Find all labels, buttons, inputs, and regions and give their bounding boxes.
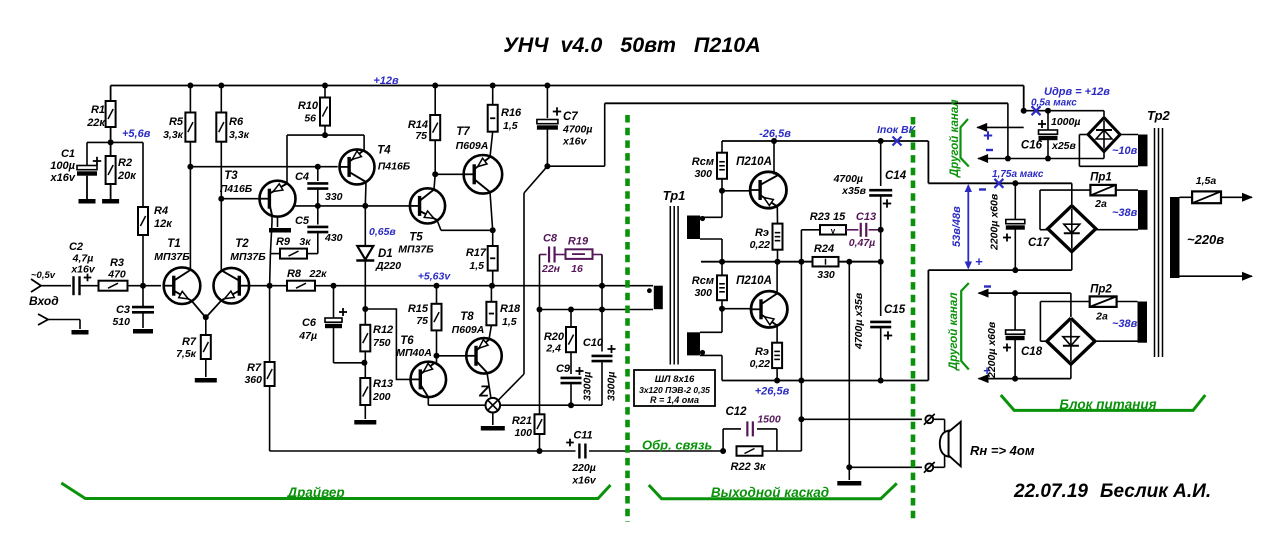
svg-text:47µ: 47µ bbox=[298, 330, 317, 342]
svg-text:750: 750 bbox=[373, 337, 391, 349]
svg-text:2а: 2а bbox=[1095, 311, 1108, 323]
svg-text:П609А: П609А bbox=[452, 324, 485, 336]
svg-text:R1: R1 bbox=[91, 104, 105, 116]
svg-text:300: 300 bbox=[694, 287, 712, 299]
svg-text:Пр1: Пр1 bbox=[1090, 172, 1112, 184]
svg-text:П210А: П210А bbox=[736, 275, 772, 287]
svg-text:300: 300 bbox=[694, 168, 712, 180]
svg-text:~38в: ~38в bbox=[1112, 207, 1138, 219]
svg-text:R3: R3 bbox=[110, 257, 124, 269]
svg-text:7,5к: 7,5к bbox=[176, 348, 197, 360]
svg-text:П609А: П609А bbox=[456, 140, 489, 152]
svg-text:R10: R10 bbox=[298, 100, 319, 112]
svg-text:УНЧ v4.0 50вт П210А: УНЧ v4.0 50вт П210А bbox=[503, 33, 761, 57]
svg-text:T1: T1 bbox=[167, 238, 180, 250]
svg-text:~220в: ~220в bbox=[1187, 232, 1224, 247]
svg-text:0,22: 0,22 bbox=[750, 358, 771, 370]
svg-text:16: 16 bbox=[571, 263, 583, 275]
svg-text:C7: C7 bbox=[563, 111, 578, 123]
svg-text:x16v: x16v bbox=[70, 264, 96, 276]
svg-text:Пр2: Пр2 bbox=[1090, 284, 1112, 296]
svg-text:x16v: x16v bbox=[571, 475, 597, 487]
svg-text:Обр. связь: Обр. связь bbox=[642, 438, 712, 453]
svg-text:2а: 2а bbox=[1094, 198, 1107, 210]
svg-text:470: 470 bbox=[107, 269, 126, 281]
svg-text:Тр2: Тр2 bbox=[1147, 108, 1171, 123]
svg-text:R18: R18 bbox=[500, 303, 521, 315]
svg-text:R7: R7 bbox=[182, 336, 197, 348]
svg-text:Iпок ВК: Iпок ВК bbox=[877, 124, 917, 136]
svg-text:П416Б: П416Б bbox=[378, 161, 411, 173]
svg-text:x16v: x16v bbox=[50, 172, 76, 184]
svg-text:R6: R6 bbox=[229, 116, 244, 128]
svg-text:C15: C15 bbox=[884, 304, 906, 316]
svg-text:Вход: Вход bbox=[29, 294, 59, 308]
svg-text:Тр1: Тр1 bbox=[663, 188, 686, 203]
svg-text:1,5: 1,5 bbox=[469, 260, 484, 272]
svg-text:2200µ х60в: 2200µ х60в bbox=[986, 321, 998, 379]
svg-text:v: v bbox=[831, 226, 836, 235]
svg-text:Uдрв = +12в: Uдрв = +12в bbox=[1044, 86, 1110, 98]
svg-text:3к: 3к bbox=[299, 236, 311, 248]
svg-text:Rсм: Rсм bbox=[692, 156, 714, 168]
svg-text:4700µ: 4700µ bbox=[562, 124, 592, 136]
svg-text:22н: 22н bbox=[541, 263, 561, 275]
svg-text:200: 200 bbox=[372, 391, 391, 403]
svg-text:R9: R9 bbox=[276, 236, 291, 248]
svg-text:+26,5в: +26,5в bbox=[755, 386, 790, 398]
svg-text:C3: C3 bbox=[116, 304, 130, 316]
svg-text:430: 430 bbox=[324, 232, 343, 244]
svg-text:R12: R12 bbox=[373, 324, 393, 336]
svg-text:МП40А: МП40А bbox=[396, 347, 432, 359]
svg-text:C18: C18 bbox=[1021, 346, 1043, 358]
svg-text:T4: T4 bbox=[377, 145, 391, 157]
svg-text:x25в: x25в bbox=[1051, 140, 1077, 152]
svg-text:C1: C1 bbox=[61, 148, 75, 160]
svg-text:C10: C10 bbox=[583, 337, 604, 349]
svg-text:+5,6в: +5,6в bbox=[122, 128, 151, 140]
svg-text:20к: 20к bbox=[117, 170, 137, 182]
svg-text:R16: R16 bbox=[501, 107, 522, 119]
svg-text:D1: D1 bbox=[378, 248, 393, 260]
svg-text:-26,5в: -26,5в bbox=[759, 128, 791, 140]
svg-text:C11: C11 bbox=[573, 430, 592, 442]
svg-text:+5,63v: +5,63v bbox=[418, 271, 452, 283]
svg-text:МП37Б: МП37Б bbox=[230, 251, 266, 263]
svg-text:1500: 1500 bbox=[757, 414, 781, 426]
svg-text:3х120 ПЭВ-2 0,35: 3х120 ПЭВ-2 0,35 bbox=[639, 385, 710, 395]
svg-text:T5: T5 bbox=[409, 232, 423, 244]
svg-text:C5: C5 bbox=[295, 215, 310, 227]
svg-text:3300µ: 3300µ bbox=[606, 372, 618, 401]
svg-text:x16v: x16v bbox=[562, 136, 588, 148]
svg-text:~10в: ~10в bbox=[1112, 145, 1138, 157]
svg-text:С8: С8 bbox=[543, 233, 558, 245]
svg-text:T7: T7 bbox=[456, 126, 470, 138]
svg-text:МП37Б: МП37Б bbox=[398, 244, 434, 256]
svg-text:R5: R5 bbox=[169, 116, 184, 128]
svg-text:R22 3к: R22 3к bbox=[731, 461, 767, 473]
svg-text:ШЛ 8х16: ШЛ 8х16 bbox=[655, 374, 695, 385]
svg-text:x35в: x35в bbox=[841, 185, 867, 197]
svg-text:510: 510 bbox=[112, 316, 130, 328]
svg-text:МП37Б: МП37Б bbox=[154, 251, 190, 263]
svg-text:R15: R15 bbox=[408, 303, 429, 315]
svg-text:Rэ: Rэ bbox=[755, 346, 769, 358]
svg-text:Rн => 4ом: Rн => 4ом bbox=[970, 443, 1035, 458]
svg-text:Другой канал: Другой канал bbox=[949, 99, 961, 178]
svg-text:22.07.19: 22.07.19 bbox=[1013, 481, 1088, 502]
svg-text:75: 75 bbox=[415, 130, 427, 142]
svg-text:T2: T2 bbox=[235, 238, 249, 250]
svg-text:Беслик А.И.: Беслик А.И. bbox=[1100, 481, 1211, 502]
svg-text:П416Б: П416Б bbox=[220, 183, 253, 195]
svg-text:R24: R24 bbox=[814, 243, 834, 255]
svg-text:R7: R7 bbox=[247, 362, 262, 374]
svg-text:C16: C16 bbox=[1021, 140, 1043, 152]
svg-text:R23 15: R23 15 bbox=[810, 211, 846, 223]
svg-text:R4: R4 bbox=[154, 205, 168, 217]
svg-text:0,5а макс: 0,5а макс bbox=[1031, 98, 1077, 109]
svg-text:T8: T8 bbox=[460, 311, 474, 323]
svg-text:T3: T3 bbox=[224, 170, 238, 182]
svg-text:0,47µ: 0,47µ bbox=[849, 237, 876, 249]
svg-text:С13: С13 bbox=[856, 211, 876, 223]
svg-text:100: 100 bbox=[514, 427, 532, 439]
svg-text:R = 1,4 ома: R = 1,4 ома bbox=[650, 395, 699, 405]
svg-text:C17: C17 bbox=[1028, 237, 1050, 249]
svg-text:22к: 22к bbox=[86, 117, 106, 129]
svg-text:~0,5v: ~0,5v bbox=[31, 270, 56, 281]
svg-text:Z: Z bbox=[478, 384, 490, 401]
svg-text:~38в: ~38в bbox=[1112, 318, 1138, 330]
svg-text:330: 330 bbox=[325, 191, 343, 203]
svg-text:1,5: 1,5 bbox=[502, 316, 517, 328]
svg-text:1,5: 1,5 bbox=[503, 120, 518, 132]
svg-text:Другой канал: Другой канал bbox=[948, 292, 960, 371]
svg-text:C14: C14 bbox=[885, 170, 907, 182]
svg-text:360: 360 bbox=[244, 374, 262, 386]
svg-text:Д220: Д220 bbox=[375, 260, 401, 272]
svg-text:C6: C6 bbox=[302, 317, 317, 329]
svg-text:0,22: 0,22 bbox=[750, 239, 771, 251]
svg-text:R8: R8 bbox=[287, 268, 302, 280]
svg-text:C2: C2 bbox=[69, 241, 83, 253]
svg-text:1000µ: 1000µ bbox=[1051, 116, 1080, 128]
svg-text:0,65в: 0,65в bbox=[369, 226, 396, 238]
svg-text:T6: T6 bbox=[400, 335, 414, 347]
svg-text:2,4: 2,4 bbox=[545, 343, 561, 355]
svg-text:330: 330 bbox=[817, 269, 835, 281]
svg-text:+12в: +12в bbox=[373, 75, 399, 87]
svg-text:П210А: П210А bbox=[736, 156, 772, 168]
svg-text:C9: C9 bbox=[556, 363, 571, 375]
svg-text:56: 56 bbox=[304, 113, 316, 125]
svg-text:C12: C12 bbox=[725, 406, 747, 418]
svg-text:Rсм: Rсм bbox=[692, 275, 714, 287]
svg-text:+: + bbox=[975, 254, 983, 269]
svg-text:12к: 12к bbox=[154, 218, 173, 230]
svg-text:22к: 22к bbox=[308, 268, 327, 280]
svg-text:R21: R21 bbox=[512, 415, 532, 427]
svg-text:3,3к: 3,3к bbox=[163, 129, 184, 141]
svg-text:1,5а: 1,5а bbox=[1196, 175, 1217, 187]
svg-text:Rэ: Rэ bbox=[755, 227, 769, 239]
svg-text:2200µ х60в: 2200µ х60в bbox=[989, 193, 1001, 251]
svg-text:4700µ: 4700µ bbox=[833, 173, 863, 185]
svg-text:R20: R20 bbox=[544, 331, 565, 343]
svg-text:53в/48в: 53в/48в bbox=[951, 206, 963, 247]
svg-text:R19: R19 bbox=[568, 236, 589, 248]
svg-text:R2: R2 bbox=[118, 157, 132, 169]
svg-text:220µ: 220µ bbox=[571, 462, 596, 474]
svg-text:R13: R13 bbox=[373, 378, 393, 390]
svg-text:R17: R17 bbox=[466, 247, 487, 259]
svg-text:4700µ х35в: 4700µ х35в bbox=[853, 292, 865, 350]
svg-text:3300µ: 3300µ bbox=[582, 372, 594, 401]
svg-text:75: 75 bbox=[416, 315, 428, 327]
svg-text:1,75а макс: 1,75а макс bbox=[992, 169, 1044, 180]
svg-text:C4: C4 bbox=[295, 171, 309, 183]
svg-text:100µ: 100µ bbox=[50, 160, 75, 172]
svg-text:3,3к: 3,3к bbox=[229, 129, 250, 141]
